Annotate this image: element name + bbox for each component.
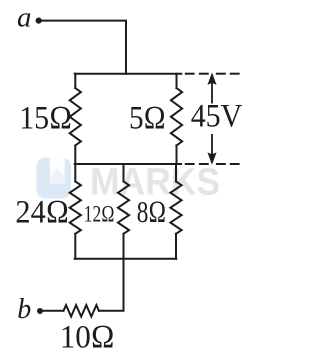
resistor 8-ohm [170,182,181,234]
terminal b [17,294,43,325]
wire 5-ohm bottom lead [176,146,178,165]
wire top node bar [75,73,182,75]
svg-text:5Ω: 5Ω [129,100,166,136]
resistor 24-ohm [70,182,81,234]
svg-text:a: a [17,2,32,34]
watermark logo [37,158,72,199]
wire 8-ohm bottom lead [175,234,177,259]
wire bottom node bar [75,258,177,260]
wire middle node bar [75,163,181,165]
svg-text:b: b [17,294,31,325]
terminal a [17,2,42,34]
wire bottom node to 10-ohm row [99,259,124,311]
svg-text:12Ω: 12Ω [84,201,115,227]
svg-text:24Ω: 24Ω [15,195,69,231]
svg-text:10Ω: 10Ω [60,320,115,355]
dashed line middle (45V reference) [185,163,240,165]
svg-text:15Ω: 15Ω [19,101,72,137]
svg-text:45V: 45V [191,99,243,135]
dashed line top (45V reference) [185,73,240,75]
wire 24-ohm top lead [74,164,76,182]
wire 12-ohm top lead [123,164,125,182]
resistor 15-ohm [70,88,81,146]
wire 24-ohm bottom lead [74,234,76,259]
wire 5-ohm top lead [176,74,178,88]
wire 12-ohm bottom lead [123,234,125,259]
resistor 10-ohm [64,305,99,316]
svg-text:8Ω: 8Ω [137,194,167,229]
wire 15-ohm bottom lead [74,146,76,165]
resistor 5-ohm [171,88,182,146]
wire 15-ohm top lead [74,74,76,88]
45V arrow down [207,134,216,165]
wire terminal b to 10-ohm [43,310,64,312]
resistor 12-ohm [118,182,129,234]
45V arrow up [207,73,216,104]
wire 8-ohm top lead [175,164,177,182]
wire from terminal a to top node [42,21,127,74]
